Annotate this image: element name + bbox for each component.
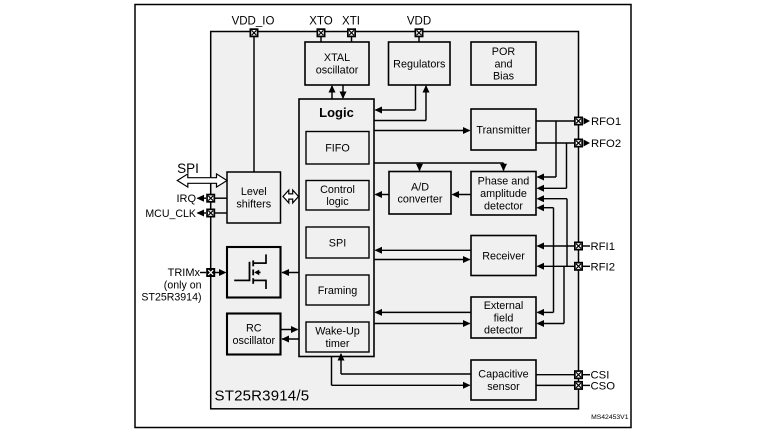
wire XTI stem (351, 36, 353, 43)
svg-text:RC: RC (246, 323, 262, 335)
wire RFO1 tap to Phase detector (537, 121, 557, 181)
pin RFO1 (575, 116, 621, 128)
svg-text:MCU_CLK: MCU_CLK (145, 208, 196, 220)
svg-text:(only on: (only on (164, 279, 202, 291)
wire Capacitive sensor to CSI (536, 374, 574, 376)
svg-text:field: field (494, 312, 514, 324)
block Level shifters (227, 172, 281, 223)
wire Transmitter to RFO1 (536, 120, 574, 122)
svg-text:A/D: A/D (411, 181, 429, 193)
svg-text:Wake-Up: Wake-Up (315, 326, 360, 338)
svg-text:Level: Level (241, 186, 267, 198)
pin MCU_CLK (145, 208, 227, 220)
block RC oscillator (227, 314, 281, 355)
block Phase and amplitude detector (471, 172, 536, 216)
block External field detector (471, 297, 536, 338)
wire Logic to RC oscillator (282, 336, 300, 343)
block SPI (306, 227, 369, 258)
block Receiver (471, 236, 536, 276)
svg-text:Logic: Logic (319, 105, 354, 120)
svg-text:detector: detector (484, 200, 523, 212)
svg-text:TRIMx: TRIMx (168, 267, 201, 279)
svg-text:RFI2: RFI2 (591, 261, 615, 273)
svg-text:Phase and: Phase and (478, 176, 530, 188)
wire Logic to Regulators (374, 85, 430, 121)
pin RFI2 (575, 261, 615, 273)
block Control logic (306, 181, 369, 211)
svg-text:converter: converter (397, 194, 442, 206)
wire RFI2 to Receiver (537, 263, 575, 270)
wire XTAL osc to Logic (down) (340, 85, 347, 99)
watermark MS42453V1 (591, 414, 629, 421)
pin VDD_IO (232, 15, 275, 36)
wire Logic to External field detector (374, 320, 471, 327)
svg-text:detector: detector (484, 325, 523, 337)
svg-text:Bias: Bias (493, 71, 515, 83)
svg-text:ST25R3914): ST25R3914) (141, 292, 201, 304)
block POR and Bias (471, 42, 536, 85)
wire Logic to Capacitive sensor (332, 357, 471, 389)
svg-text:oscillator: oscillator (232, 335, 275, 347)
block FIFO (306, 132, 369, 165)
pin IRQ (176, 193, 227, 205)
pin XTO (309, 15, 332, 36)
block Logic (299, 99, 374, 357)
wire A/D converter to Logic (375, 191, 390, 198)
wire Phase detector to A/D converter (452, 191, 472, 198)
wire Logic to Receiver (374, 256, 471, 263)
svg-text:logic: logic (326, 196, 349, 208)
svg-text:XTO: XTO (309, 15, 332, 27)
pin VDD (407, 15, 431, 36)
svg-text:oscillator: oscillator (316, 64, 359, 76)
svg-text:SPI: SPI (329, 237, 346, 249)
wire Receiver to Logic (375, 247, 472, 254)
wire Logic to A/D and Phase detector (374, 163, 507, 171)
svg-text:RFO1: RFO1 (591, 116, 621, 128)
svg-text:Capacitive: Capacitive (478, 369, 528, 381)
pin TRIMx (141, 267, 226, 304)
wire VDD_IO stem (253, 36, 255, 172)
wire Logic to Transmitter (374, 127, 471, 134)
pin XTI (342, 15, 360, 36)
svg-text:shifters: shifters (236, 198, 271, 210)
wire XTAL osc to Logic (up) (329, 85, 336, 99)
svg-text:POR: POR (492, 46, 516, 58)
svg-text:VDD_IO: VDD_IO (232, 15, 275, 27)
svg-text:XTI: XTI (342, 15, 360, 27)
wire RFI1 tap to Phase detector and field detector (537, 204, 554, 316)
chip name label ST25R3914/5 (215, 388, 310, 405)
wire RFO2 tap to Phase detector (537, 143, 567, 192)
wire Capacitive sensor to CSO (536, 384, 574, 386)
chip boundary ST25R3914/5 (211, 32, 579, 409)
svg-text:MS42453V1: MS42453V1 (591, 414, 629, 421)
wire Capacitive sensor to Wake-Up timer (338, 353, 472, 374)
block Regulators U-REG (389, 42, 451, 85)
wire Logic to trim transistor (282, 269, 300, 276)
svg-text:amplitude: amplitude (480, 188, 527, 200)
block Wake-Up timer (306, 322, 369, 352)
block Framing (306, 275, 369, 305)
node SPI bus label (177, 161, 199, 176)
wire SPI double arrow (177, 174, 227, 187)
wire RC oscillator to Logic (281, 326, 299, 333)
wire Regulators to Logic (375, 85, 416, 114)
svg-text:Transmitter: Transmitter (476, 124, 531, 136)
wire XTO stem (320, 36, 322, 43)
svg-text:FIFO: FIFO (325, 143, 350, 155)
wire RFI1 to Receiver (537, 243, 575, 250)
wire RFI2 tap to Phase detector (537, 195, 568, 266)
block XTAL oscillator (305, 42, 369, 85)
pin RFO2 (575, 138, 621, 150)
block Capacitive sensor (471, 360, 536, 400)
svg-text:Receiver: Receiver (482, 250, 525, 262)
pin CSO (575, 380, 615, 392)
pin CSI (575, 370, 609, 382)
svg-text:XTAL: XTAL (324, 52, 350, 64)
svg-text:Regulators: Regulators (393, 58, 446, 70)
svg-text:RFO2: RFO2 (591, 138, 621, 150)
wire RFI2 tap to field detector (537, 266, 565, 327)
wire External field detector to Logic (375, 309, 472, 316)
wire Level shifters to Logic double arrow (283, 190, 299, 203)
svg-text:CSO: CSO (591, 380, 616, 392)
svg-text:IRQ: IRQ (176, 193, 196, 205)
block Transmitter (471, 109, 536, 150)
svg-text:External: External (484, 300, 524, 312)
svg-text:timer: timer (326, 338, 350, 350)
svg-text:ST25R3914/5: ST25R3914/5 (215, 388, 310, 405)
pin RFI1 (575, 241, 615, 253)
svg-text:RFI1: RFI1 (591, 241, 615, 253)
wire VDD stem (418, 36, 420, 43)
outer border frame (135, 5, 631, 428)
svg-text:Control: Control (320, 184, 355, 196)
transistor Q1 (trim MOSFET) block (227, 247, 281, 298)
wire Transmitter to RFO2 (536, 142, 574, 144)
svg-text:sensor: sensor (487, 381, 520, 393)
svg-text:Framing: Framing (318, 285, 358, 297)
block A/D converter (389, 172, 451, 215)
svg-text:VDD: VDD (407, 15, 431, 27)
svg-text:and: and (494, 58, 512, 70)
